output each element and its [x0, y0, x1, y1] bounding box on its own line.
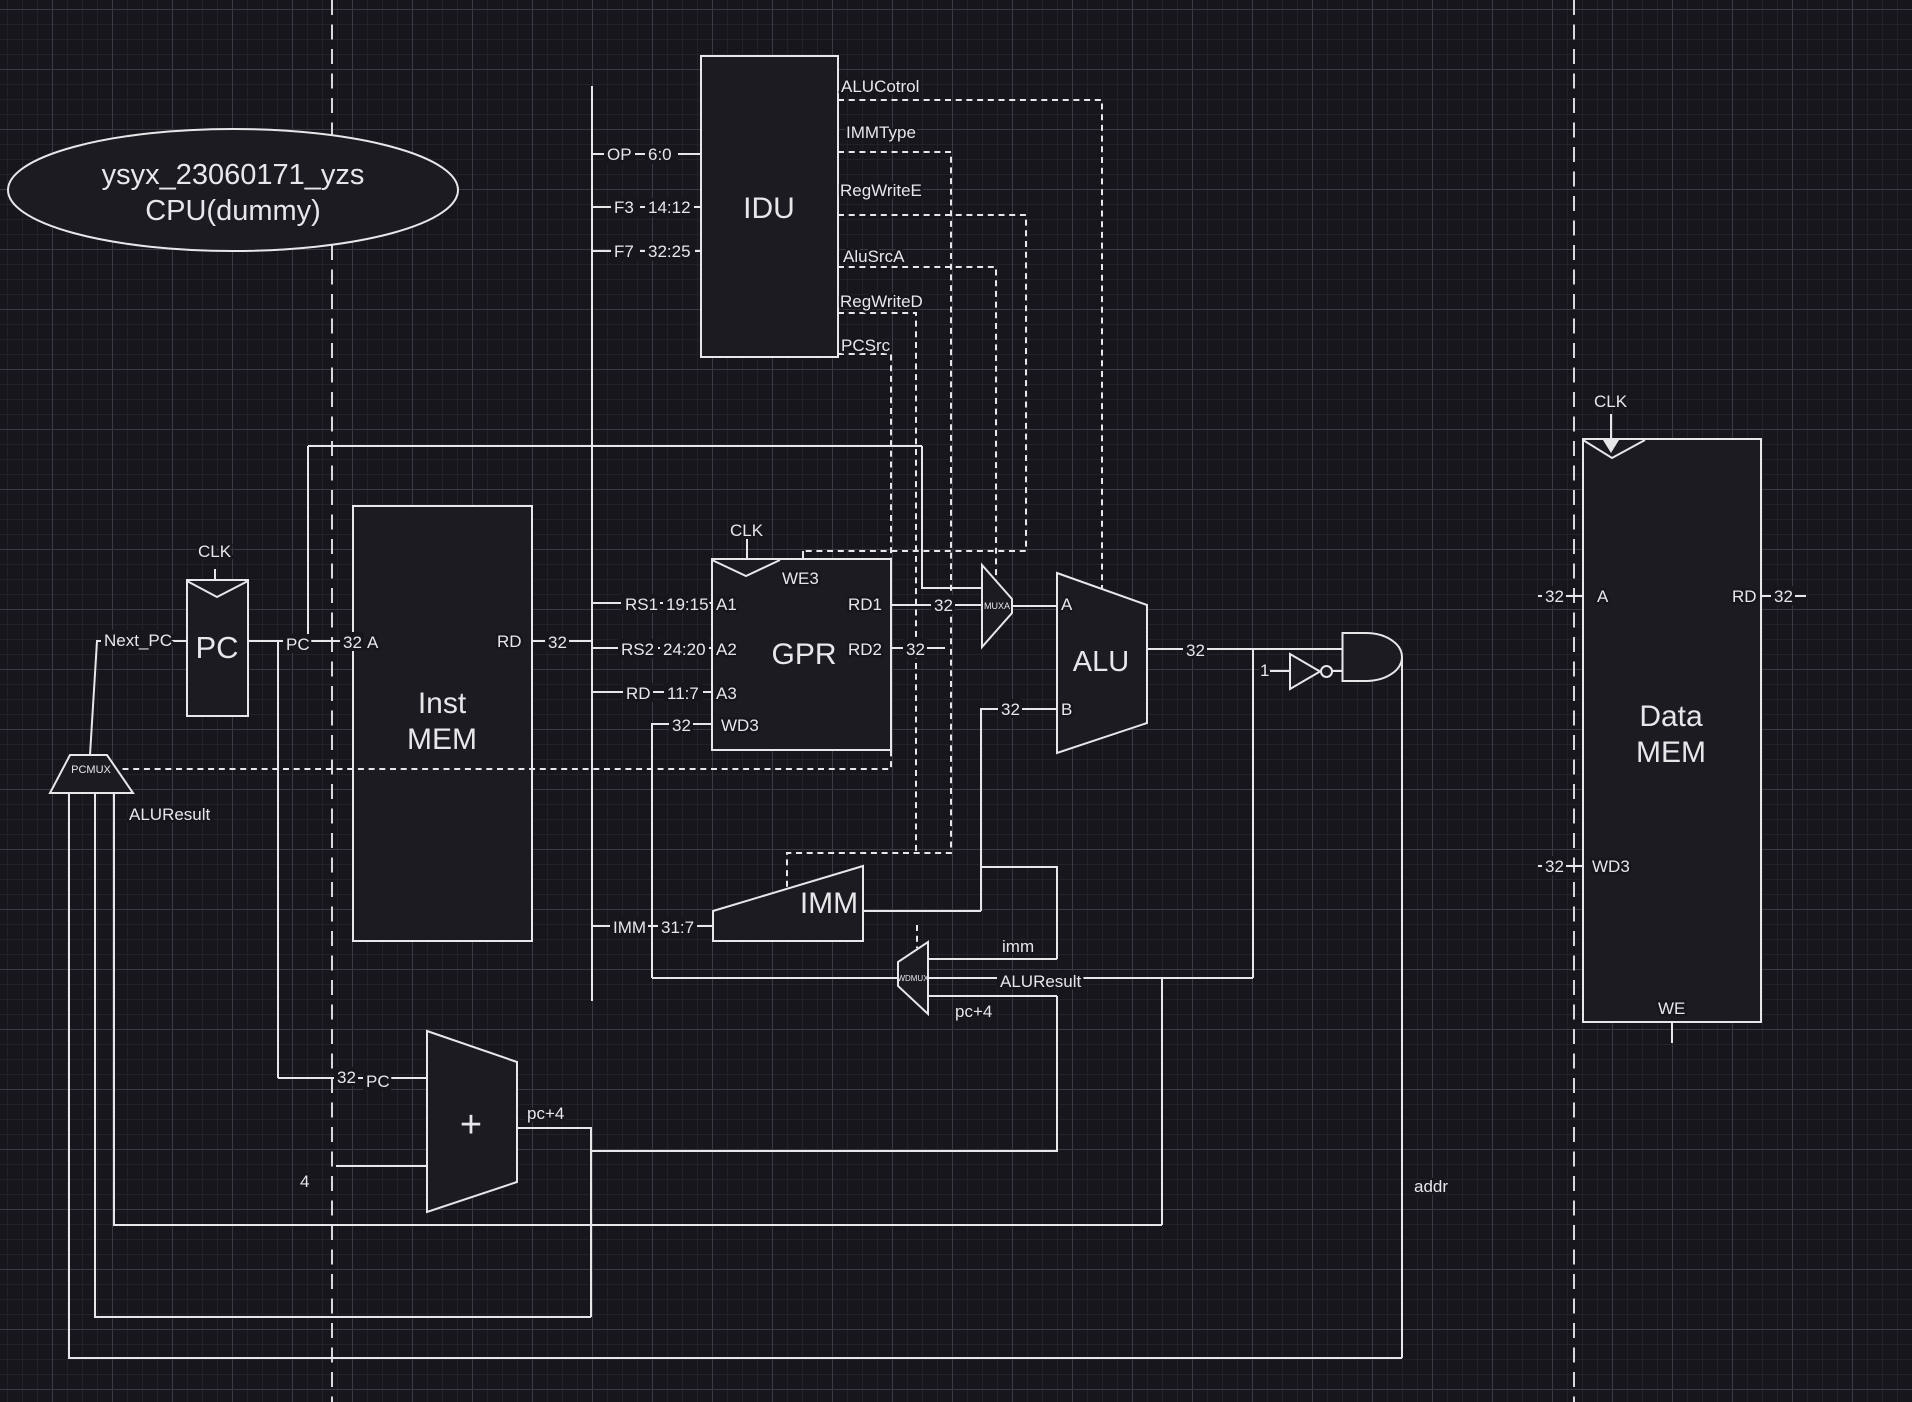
block IDU: [701, 56, 838, 357]
wire GPR RD1 to MUXA: [891, 604, 982, 606]
svg-text:imm: imm: [1002, 937, 1034, 956]
svg-text:32: 32: [934, 596, 953, 615]
svg-text:Data: Data: [1639, 700, 1703, 733]
svg-text:ALU: ALU: [1073, 646, 1129, 678]
wire PC output to Inst MEM A: [248, 640, 353, 642]
svg-text:A3: A3: [716, 684, 737, 703]
wire PCSrc dashed: [118, 354, 891, 769]
label background patches (erase wire under text): [101, 145, 1795, 1090]
svg-text:RegWriteE: RegWriteE: [840, 181, 922, 200]
clock arrow Data MEM: [1603, 414, 1619, 453]
wire PC branch down to adder: [277, 641, 279, 1078]
svg-text:pc+4: pc+4: [527, 1104, 564, 1123]
svg-text:MEM: MEM: [407, 723, 477, 756]
wire WDMUX pc+4 input: [928, 995, 1057, 997]
svg-text:A: A: [1597, 587, 1609, 606]
svg-text:ALUResult: ALUResult: [1000, 972, 1082, 991]
mux MUXA: [982, 565, 1012, 647]
svg-text:WD3: WD3: [721, 716, 759, 735]
wire top rail from PC to MUXA column: [308, 445, 922, 447]
svg-text:32: 32: [548, 633, 567, 652]
wire pc+4 bottom rail to PCMUX: [95, 793, 591, 1317]
svg-text:WE3: WE3: [782, 569, 819, 588]
block PC register: [187, 580, 248, 716]
wire IMM to ALU B riser: [981, 709, 1057, 911]
svg-text:CPU(dummy): CPU(dummy): [145, 195, 321, 227]
svg-text:IMMType: IMMType: [846, 123, 916, 142]
svg-text:RS2: RS2: [621, 640, 654, 659]
wire PCMUX output Next_PC: [90, 641, 187, 755]
svg-text:ysyx_23060171_yzs: ysyx_23060171_yzs: [102, 159, 365, 191]
wire bus tick F3 to IDU: [592, 206, 701, 208]
wire WD3 input riser: [652, 724, 712, 978]
blocks group: [50, 56, 1761, 1212]
wire pc+4 branch to WDMUX: [591, 996, 1057, 1151]
wire junction on PC output up to top rail: [307, 446, 309, 641]
wire bus tick RS2 to GPR A2: [592, 647, 712, 649]
svg-text:11:7: 11:7: [667, 684, 699, 703]
wire bus tick OP to IDU: [592, 153, 701, 155]
clock tick PC: [214, 569, 216, 580]
svg-text:WDMUX: WDMUX: [897, 974, 929, 983]
svg-text:GPR: GPR: [771, 638, 836, 671]
block IMM sign extender: [713, 866, 863, 941]
wire bus tick IMM to IMM block: [592, 925, 713, 927]
wire ALUResult bottom rail to PCMUX: [114, 793, 1162, 1225]
svg-text:A1: A1: [716, 595, 737, 614]
svg-text:PC: PC: [286, 635, 310, 654]
gate AND: [1343, 633, 1403, 681]
svg-text:32: 32: [1545, 587, 1564, 606]
svg-text:IMM: IMM: [613, 918, 646, 937]
svg-text:32: 32: [343, 633, 362, 652]
svg-text:32: 32: [1774, 587, 1793, 606]
svg-text:CLK: CLK: [1594, 392, 1628, 411]
svg-text:RD: RD: [497, 632, 522, 651]
wire NOT gate input: [1270, 670, 1290, 672]
svg-text:MEM: MEM: [1636, 736, 1706, 769]
wire Data MEM A stub: [1538, 595, 1583, 597]
block Data MEM: [1583, 439, 1761, 1022]
svg-text:4: 4: [300, 1172, 309, 1191]
svg-text:RD: RD: [626, 684, 651, 703]
wire bus tick RD to GPR A3: [592, 691, 712, 693]
svg-text:32: 32: [1001, 700, 1020, 719]
WE3 tick GPR top: [802, 551, 804, 559]
wire adder PC input: [278, 1077, 427, 1079]
svg-text:32: 32: [906, 640, 925, 659]
block adder plus: [427, 1031, 517, 1212]
labels group: [104, 77, 1793, 1196]
svg-text:WD3: WD3: [1592, 857, 1630, 876]
block GPR: [712, 559, 891, 750]
svg-text:Next_PC: Next_PC: [104, 631, 172, 650]
separator dashed line left: [331, 0, 333, 1402]
svg-text:CLK: CLK: [730, 521, 764, 540]
control signal dashed wires: [118, 100, 1102, 948]
svg-text:WE: WE: [1658, 999, 1685, 1018]
wire bus tick F7 to IDU: [592, 250, 701, 252]
svg-text:A: A: [1061, 595, 1073, 614]
wire WDMUX output to WD3 riser: [652, 977, 898, 979]
mux WDMUX: [897, 942, 929, 1014]
wire MUXA output to ALU A: [1012, 605, 1057, 607]
wire AluSrcA dashed: [838, 267, 996, 581]
wire ALU output to AND gate: [1147, 648, 1342, 650]
clock tick GPR: [746, 539, 748, 559]
wire AND output addr down: [1401, 657, 1403, 1358]
svg-text:pc+4: pc+4: [955, 1002, 992, 1021]
svg-text:CLK: CLK: [198, 542, 232, 561]
wire Inst MEM RD output to bus: [532, 640, 592, 642]
wire RegWriteE dashed: [803, 215, 1026, 559]
svg-text:RegWriteD: RegWriteD: [840, 292, 923, 311]
svg-text:IDU: IDU: [743, 192, 795, 225]
wire IMM branch to WDMUX elbow: [981, 867, 1057, 959]
wire WDMUX imm input: [928, 958, 1057, 960]
block Inst MEM: [353, 506, 532, 941]
svg-text:PC: PC: [366, 1072, 390, 1091]
svg-text:PCSrc: PCSrc: [841, 336, 891, 355]
wire ALUCotrol dashed: [838, 100, 1102, 589]
svg-text:6:0: 6:0: [648, 145, 672, 164]
svg-text:ALUCotrol: ALUCotrol: [841, 77, 919, 96]
mux PCMUX: [50, 755, 133, 793]
svg-text:+: +: [460, 1104, 482, 1146]
wire adder output pc+4: [517, 1128, 591, 1317]
svg-text:32: 32: [672, 716, 691, 735]
title ellipse: [8, 129, 458, 251]
wire addr bottom rail to PCMUX: [69, 793, 1402, 1358]
wire down from top rail to MUXA input: [922, 446, 982, 588]
wire ALUResult branch down: [1252, 649, 1254, 978]
wire instruction bus vertical: [591, 86, 593, 1001]
svg-text:32: 32: [337, 1068, 356, 1087]
svg-text:32: 32: [1186, 641, 1205, 660]
svg-text:RS1: RS1: [625, 595, 658, 614]
block ALU: [1057, 573, 1147, 753]
svg-text:A2: A2: [716, 640, 737, 659]
wire RegWriteD dashed: [838, 313, 916, 853]
svg-text:ALUResult: ALUResult: [129, 805, 211, 824]
wire Data MEM RD stub: [1761, 595, 1806, 597]
svg-text:24:20: 24:20: [663, 640, 706, 659]
svg-text:31:7: 31:7: [661, 918, 694, 937]
svg-text:32: 32: [1545, 857, 1564, 876]
svg-text:PCMUX: PCMUX: [71, 764, 111, 776]
svg-text:A: A: [367, 633, 379, 652]
svg-text:RD: RD: [1732, 587, 1757, 606]
wire ALUResult to WDMUX: [928, 977, 1253, 979]
wire bus tick RS1 to GPR A1: [592, 602, 712, 604]
separator dashed line right: [1573, 0, 1575, 1402]
svg-text:19:15: 19:15: [666, 595, 709, 614]
svg-text:1: 1: [1260, 661, 1269, 680]
svg-text:MUXA: MUXA: [984, 601, 1010, 611]
wire adder constant 4 input: [336, 1165, 427, 1167]
gate NOT inverter: [1290, 654, 1332, 689]
svg-text:F3: F3: [614, 198, 634, 217]
wire NOT gate output to AND: [1332, 670, 1342, 672]
wire Data MEM WD3 stub: [1538, 865, 1583, 867]
svg-text:B: B: [1061, 700, 1072, 719]
svg-text:PC: PC: [195, 630, 238, 665]
svg-text:Inst: Inst: [418, 687, 467, 720]
svg-text:RD2: RD2: [848, 640, 882, 659]
wire GPR RD2 stub: [891, 647, 945, 649]
svg-text:RD1: RD1: [848, 595, 882, 614]
svg-text:32:25: 32:25: [648, 242, 691, 261]
svg-text:14:12: 14:12: [648, 198, 691, 217]
svg-text:addr: addr: [1414, 1177, 1448, 1196]
wire IMM output: [863, 910, 981, 912]
svg-text:OP: OP: [607, 145, 632, 164]
svg-text:F7: F7: [614, 242, 634, 261]
wire IMMType dashed: [787, 152, 951, 889]
svg-text:IMM: IMM: [800, 887, 858, 920]
svg-text:AluSrcA: AluSrcA: [843, 247, 905, 266]
wire ALUResult feedback down: [1161, 978, 1163, 1225]
wire Data MEM WE stub: [1671, 1022, 1673, 1043]
